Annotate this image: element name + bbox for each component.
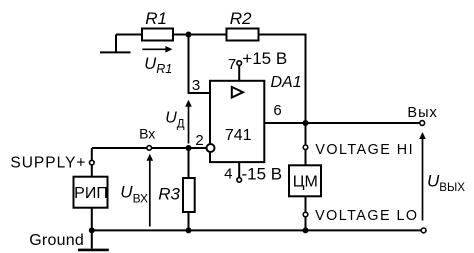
svg-text:4: 4 [224,166,232,183]
svg-text:741: 741 [225,127,252,144]
svg-text:R3: R3 [158,184,180,203]
svg-text:DA1: DA1 [271,74,302,91]
svg-text:VOLTAGE HI: VOLTAGE HI [315,142,414,158]
svg-text:+15 В: +15 В [242,49,287,68]
svg-text:Вых: Вых [407,105,437,121]
svg-text:3: 3 [192,77,200,94]
svg-text:SUPPLY+: SUPPLY+ [10,154,86,171]
svg-text:R1: R1 [145,9,167,28]
svg-text:VOLTAGE LO: VOLTAGE LO [315,208,418,224]
svg-text:2: 2 [195,132,203,149]
svg-text:ЦМ: ЦМ [293,173,318,190]
svg-text:6: 6 [273,102,281,119]
svg-text:Ground: Ground [29,232,84,249]
svg-text:РИП: РИП [74,185,108,202]
svg-text:Вх: Вх [139,126,155,142]
svg-text:R2: R2 [230,9,252,28]
svg-text:-15 В: -15 В [242,164,283,183]
svg-text:7: 7 [228,56,236,73]
